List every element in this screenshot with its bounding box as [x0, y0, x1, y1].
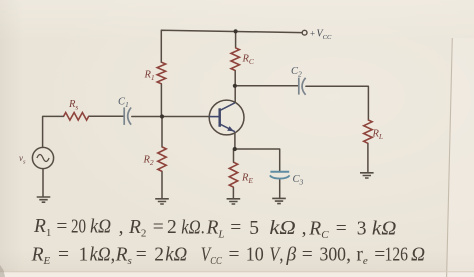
svg-text:R1: R1 — [33, 216, 51, 239]
svg-text:β: β — [286, 244, 297, 265]
svg-text:kΩ: kΩ — [90, 217, 111, 238]
svg-text:2: 2 — [167, 217, 177, 238]
svg-text:V,: V, — [269, 244, 283, 265]
svg-text:re: re — [356, 244, 368, 267]
svg-text:RC: RC — [308, 218, 329, 241]
svg-text:RE: RE — [241, 173, 253, 185]
svg-text:,: , — [346, 244, 351, 265]
svg-text:=: = — [58, 244, 69, 265]
svg-text:10: 10 — [246, 244, 264, 265]
svg-text:kΩ: kΩ — [269, 218, 295, 239]
svg-text:=: = — [56, 216, 67, 237]
svg-text:kΩ.: kΩ. — [181, 217, 205, 238]
svg-text:RE: RE — [31, 244, 51, 267]
svg-text:VCC: VCC — [317, 29, 332, 41]
svg-text:R1: R1 — [144, 70, 155, 82]
svg-text:300: 300 — [320, 244, 347, 265]
svg-text:,: , — [119, 217, 124, 238]
svg-text:5: 5 — [249, 218, 259, 239]
svg-text:=: = — [302, 244, 313, 265]
svg-text:Rs: Rs — [68, 99, 78, 111]
svg-text:RL: RL — [206, 218, 225, 241]
svg-text:RL: RL — [372, 129, 384, 141]
svg-text:=: = — [230, 218, 241, 239]
svg-text:C1: C1 — [118, 97, 129, 109]
svg-text:vs: vs — [19, 153, 26, 165]
svg-text:3: 3 — [357, 219, 367, 240]
svg-text:kΩ,: kΩ, — [90, 244, 116, 265]
svg-text:Ω: Ω — [411, 244, 425, 265]
svg-text:20: 20 — [71, 217, 86, 238]
svg-text:126: 126 — [385, 244, 409, 265]
svg-text:RC: RC — [242, 54, 255, 66]
svg-text:+: + — [310, 28, 315, 38]
svg-text:=: = — [229, 244, 240, 265]
svg-text:1: 1 — [79, 244, 89, 265]
svg-text:kΩ: kΩ — [165, 244, 187, 265]
svg-text:2: 2 — [154, 244, 164, 265]
svg-text:Rs: Rs — [115, 244, 132, 267]
svg-text:=: = — [336, 219, 347, 240]
svg-text:R2: R2 — [128, 217, 146, 240]
svg-text:C2: C2 — [291, 66, 302, 78]
svg-text:kΩ: kΩ — [372, 219, 397, 240]
svg-text:=: = — [136, 244, 147, 265]
svg-text:=: = — [153, 217, 164, 238]
svg-text:,: , — [302, 218, 307, 239]
svg-text:VCC: VCC — [201, 244, 223, 267]
svg-text:C3: C3 — [293, 174, 304, 186]
svg-text:R2: R2 — [143, 155, 154, 167]
